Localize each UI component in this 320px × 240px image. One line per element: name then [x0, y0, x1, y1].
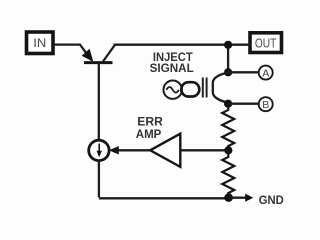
transistor Q1 base wire down [98, 63, 100, 141]
terminal A [259, 66, 273, 80]
wire IN to transistor emitter [54, 45, 92, 61]
transistor Q1 base bar [84, 61, 113, 64]
err amp input wire from divider [180, 149, 228, 151]
terminal B [259, 97, 273, 111]
INJECT SIGNAL label [150, 50, 194, 75]
svg-text:OUT: OUT [255, 37, 277, 51]
junction dot on top rail [224, 41, 232, 49]
junction dot bottom rail [224, 193, 233, 202]
coupling capacitor C1 [203, 78, 207, 98]
ERR AMP label [136, 115, 163, 141]
svg-text:SIGNAL: SIGNAL [150, 61, 194, 75]
svg-text:IN: IN [33, 38, 46, 50]
wire to terminal B [228, 103, 258, 105]
junction dot node A [224, 68, 232, 76]
inject signal source circle with sine [164, 81, 182, 99]
op-amp ERR AMP triangle [150, 134, 180, 167]
svg-text:A: A [262, 68, 269, 80]
transistor Q1 collector [103, 45, 115, 62]
top rail wire collector to OUT [114, 44, 251, 46]
bottom rail wire [99, 197, 228, 199]
IN box [27, 32, 54, 54]
svg-text:AMP: AMP [136, 127, 162, 141]
GND arrow [229, 197, 247, 199]
wire current source to bottom rail [98, 161, 100, 198]
junction dot divider mid [224, 146, 232, 154]
resistor R2 [222, 151, 234, 198]
svg-text:B: B [262, 99, 269, 111]
resistor R1 [222, 104, 234, 151]
wire top rail down to node A [227, 45, 229, 73]
connector stadium [181, 82, 199, 96]
wire to terminal A [228, 71, 258, 73]
transistor Q1 emitter arrowhead [83, 50, 93, 61]
OUT box [250, 33, 282, 53]
junction dot node B [224, 100, 232, 108]
injection loop bulge between A and B [213, 73, 228, 103]
err amp output wire with arrowhead into current source [116, 149, 150, 151]
svg-text:GND: GND [259, 193, 284, 207]
current source I1 [89, 140, 109, 160]
